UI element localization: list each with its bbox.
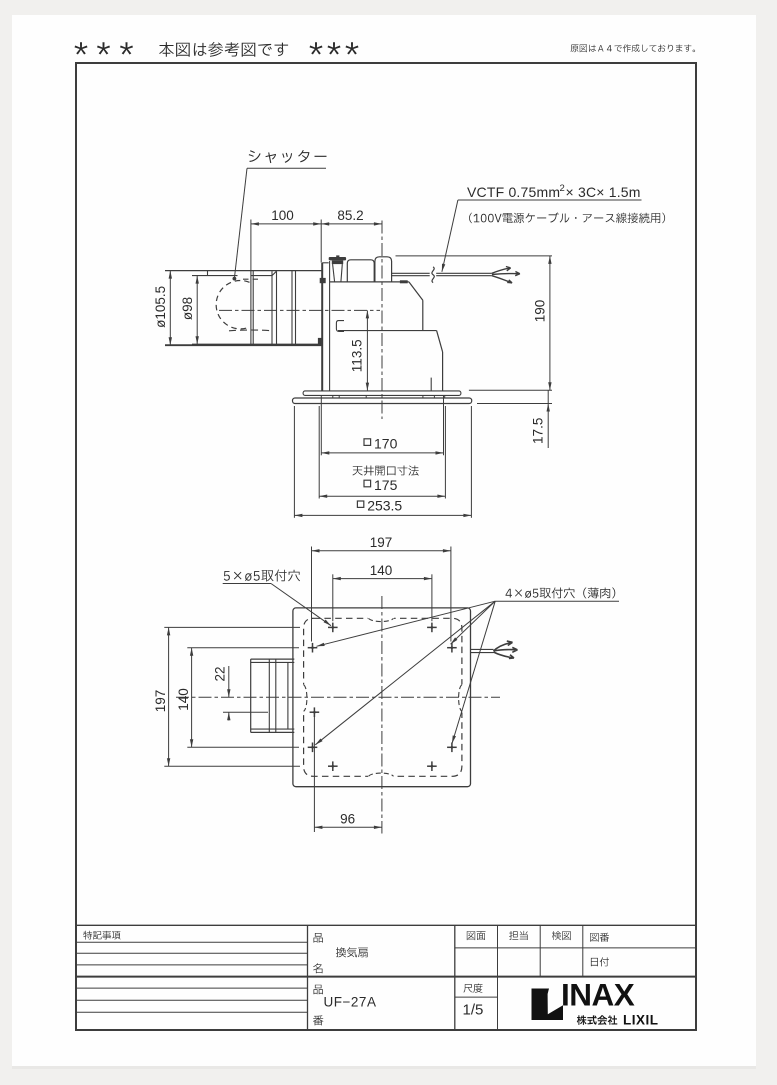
svg-text:96: 96: [340, 811, 355, 826]
svg-text:170: 170: [374, 435, 398, 451]
svg-text:100: 100: [271, 208, 294, 223]
body flange plate: [303, 391, 461, 396]
ceiling opening note + dim box175: [353, 466, 419, 476]
terminal bump: [375, 257, 392, 282]
dim 197 (left): [168, 627, 170, 766]
dim box170: [321, 452, 443, 454]
svg-text:197: 197: [153, 690, 168, 713]
note: original drawn in A4: [571, 44, 696, 52]
label 5x dia5 mounting holes: [224, 570, 300, 582]
svg-text:LIXIL: LIXIL: [623, 1013, 659, 1028]
kabushikigaisha LIXIL: [577, 1015, 618, 1025]
label 4x dia5 mounting holes (thin): [506, 587, 616, 598]
dim 113.5: [366, 310, 368, 390]
housing shoulder: [330, 281, 409, 283]
side view: duct ribs: [250, 271, 252, 346]
housing mid line: [338, 330, 437, 332]
side view: duct outer shell (dia 105.5): [165, 270, 322, 272]
dim 17.5: [469, 389, 552, 391]
title block outer lines: [76, 924, 696, 926]
right header row columns: [497, 925, 499, 1030]
motor cap: [336, 255, 339, 257]
svg-text:1/5: 1/5: [463, 1002, 484, 1019]
svg-text:197: 197: [370, 535, 393, 550]
dim box253.5: [294, 514, 471, 516]
svg-text:22: 22: [213, 666, 228, 681]
svg-text:17.5: 17.5: [531, 418, 546, 444]
svg-text:× 3C× 1.5m: × 3C× 1.5m: [566, 184, 641, 200]
left column rows: [76, 941, 308, 943]
shutter (dashed arc): [216, 281, 249, 329]
side view: duct pipe (dia 98): [192, 275, 238, 277]
dim 100 / 85.2: [251, 223, 382, 225]
svg-text:UF−27A: UF−27A: [324, 995, 377, 1010]
cable break symbol: [432, 267, 434, 283]
dim 140 (left): [191, 648, 193, 748]
note: hon-zu wa sankozu desu with asterisks: [75, 42, 88, 54]
title block texts: [83, 931, 120, 940]
label: shutter: [249, 150, 327, 163]
svg-text:ø98: ø98: [180, 297, 195, 320]
svg-text:2: 2: [560, 183, 565, 194]
grille ticks: [332, 395, 334, 398]
dim 140 (top): [333, 578, 432, 580]
dashed notch left: [304, 685, 307, 712]
plan: ceiling panel outline: [293, 608, 471, 787]
duct centerline: [219, 309, 380, 311]
leader to cable: [442, 200, 458, 272]
plan cable: [471, 648, 494, 650]
dim 197 (top): [312, 550, 451, 552]
dashed notch bottom: [369, 773, 394, 776]
svg-text:140: 140: [370, 563, 393, 578]
extension lines below plates: [320, 395, 322, 455]
INAX logo mark: [532, 989, 564, 1021]
motor box: [347, 260, 374, 282]
drawing frame: [76, 63, 696, 1030]
svg-text:VCTF 0.75mm: VCTF 0.75mm: [467, 184, 560, 200]
clip bracket: [336, 321, 344, 332]
fan housing left wall: [321, 263, 323, 391]
plan centerlines: [381, 596, 383, 834]
svg-text:INAX: INAX: [561, 977, 635, 1013]
dim 22: [223, 711, 268, 713]
svg-text:113.5: 113.5: [349, 339, 364, 372]
plan: duct stub: [251, 658, 295, 660]
dashed notch right: [459, 685, 462, 712]
body centerline: [381, 221, 383, 420]
svg-text:253.5: 253.5: [367, 497, 402, 513]
dim dia98: [196, 276, 198, 345]
dim 190: [396, 255, 553, 257]
inner vertical near flange: [430, 378, 432, 391]
ceiling decorative panel: [293, 398, 472, 404]
dim dia105.5: [169, 271, 171, 346]
power cable (side): [392, 272, 430, 274]
dim 96: [313, 717, 315, 833]
housing right profile: [409, 282, 423, 300]
svg-text:140: 140: [176, 688, 191, 711]
mounting holes 4x dia5 (thin wall): [308, 647, 318, 649]
left mounting tab: [318, 338, 322, 346]
cable frayed end (side): [492, 267, 511, 274]
svg-text:ø105.5: ø105.5: [153, 286, 168, 328]
plan: body dashed outline: [304, 618, 462, 776]
dashed notch top: [369, 618, 394, 621]
svg-text:190: 190: [532, 300, 547, 323]
svg-text:175: 175: [374, 477, 398, 493]
svg-text:85.2: 85.2: [337, 208, 363, 223]
mounting holes 5x dia5: [328, 626, 338, 628]
